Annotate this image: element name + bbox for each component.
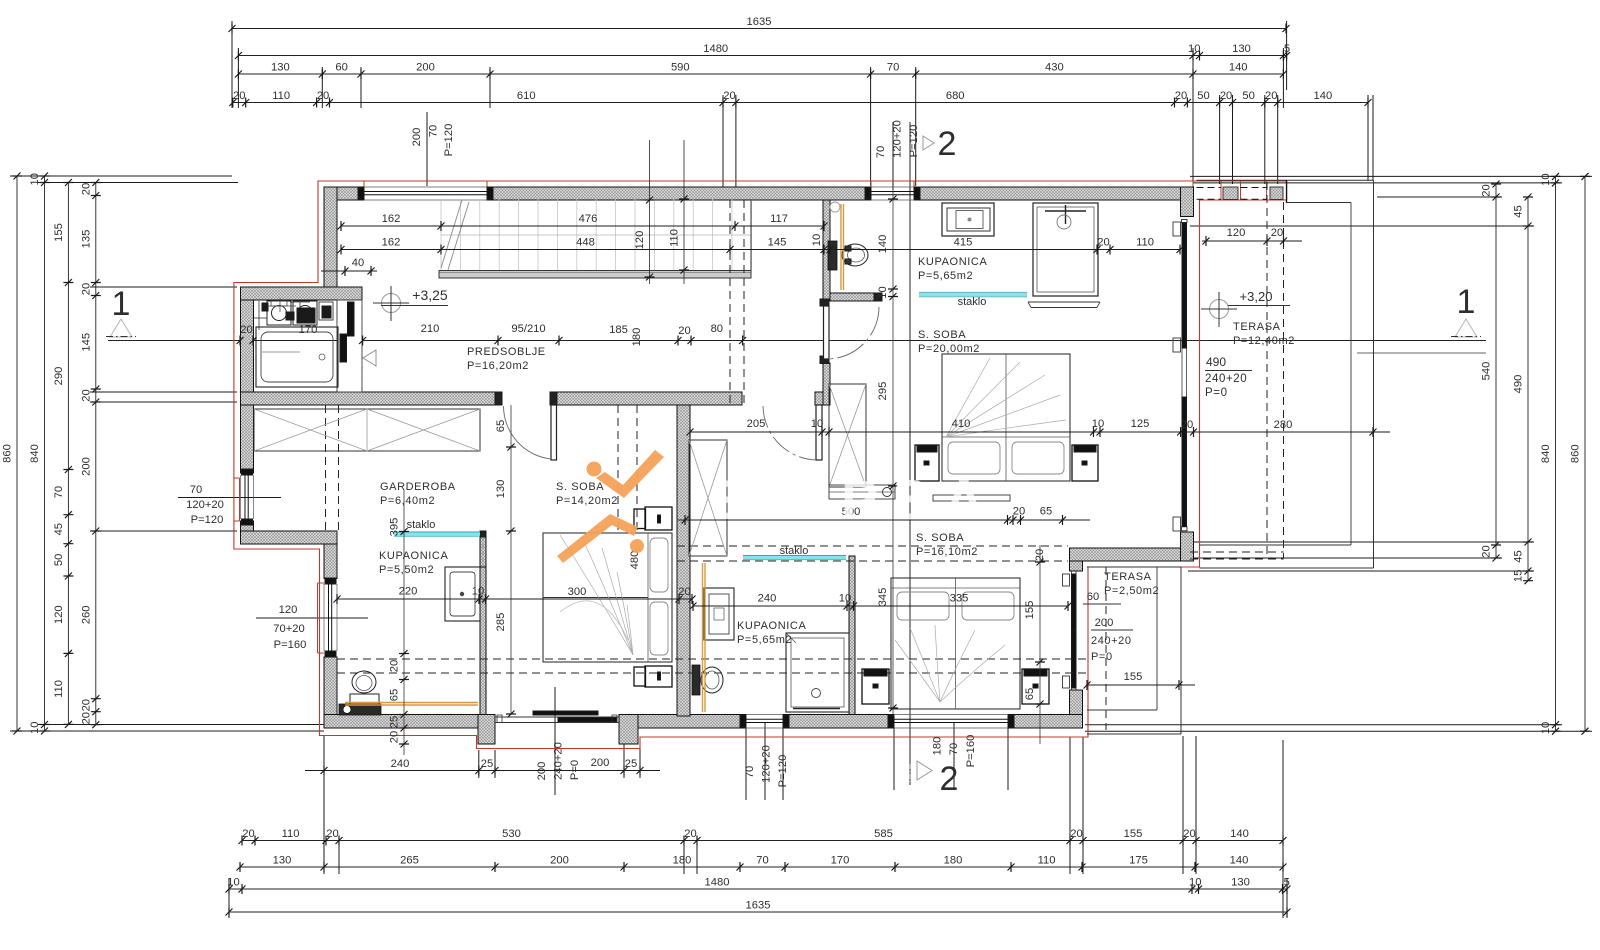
svg-text:KUPAONICA: KUPAONICA — [379, 550, 448, 562]
svg-text:200: 200 — [591, 757, 610, 769]
svg-text:448: 448 — [576, 237, 595, 249]
svg-text:P=5,50m2: P=5,50m2 — [379, 564, 434, 576]
dim row stairs 162/448/145/10/415/20/110 — [338, 234, 1184, 255]
vanity kupaonica 5,65 mid — [704, 588, 734, 640]
svg-text:65: 65 — [495, 420, 507, 432]
dim 10/20 labels near staklo S.SOBA16 — [1010, 515, 1017, 525]
dim row y599 220/10/300/20 — [334, 586, 696, 605]
svg-text:10: 10 — [472, 586, 484, 598]
nightstand S.SOBA14 bottom — [634, 666, 672, 687]
svg-text:P=120: P=120 — [191, 514, 224, 526]
shower kupaonica 5,65 mid — [786, 633, 849, 712]
wardrobe S.SOBA16 left — [689, 440, 727, 556]
svg-text:10: 10 — [29, 173, 41, 185]
svg-text:45: 45 — [53, 523, 65, 535]
svg-text:PREDSOBLJE: PREDSOBLJE — [467, 346, 546, 358]
svg-text:410: 410 — [952, 418, 971, 430]
svg-text:170: 170 — [831, 855, 850, 867]
svg-text:860: 860 — [1570, 444, 1582, 463]
svg-text:45: 45 — [1513, 550, 1525, 562]
svg-text:610: 610 — [517, 90, 536, 102]
terrace pillar 1 — [1223, 187, 1238, 200]
svg-text:20: 20 — [1220, 90, 1232, 102]
bed S.SOBA14 — [543, 533, 672, 662]
svg-text:585: 585 — [874, 828, 893, 840]
svg-text:285: 285 — [495, 613, 507, 632]
section line 1-1 — [108, 340, 1486, 342]
svg-text:20: 20 — [1175, 90, 1187, 102]
svg-text:50: 50 — [1242, 90, 1254, 102]
svg-text:120+20: 120+20 — [892, 120, 904, 158]
extension lines bottom — [229, 687, 1287, 918]
dashed projection pair vertical garderoba-west — [326, 405, 339, 531]
svg-text:140: 140 — [1314, 90, 1333, 102]
dim 40 laundry — [321, 257, 377, 276]
wall S.SOBA14 east — [677, 405, 690, 716]
terrace 12,40 border — [1197, 180, 1374, 568]
label TERASA 2,50 — [1104, 571, 1159, 597]
svg-text:20: 20 — [1013, 506, 1025, 518]
svg-text:65: 65 — [1040, 506, 1052, 518]
svg-text:125: 125 — [1131, 418, 1150, 430]
svg-text:ELIPSA: ELIPSA — [712, 468, 998, 531]
dim row y337 20/170/210/95-210/185/20/80 — [237, 323, 747, 346]
svg-text:P=2,50m2: P=2,50m2 — [1104, 585, 1159, 597]
extension lines top — [232, 21, 1373, 190]
svg-text:20: 20 — [723, 90, 735, 102]
section mark 2 top — [923, 125, 956, 163]
toilet WC — [828, 241, 868, 270]
shower kupaonica 5,50 — [445, 567, 480, 621]
svg-text:280: 280 — [1274, 419, 1293, 431]
label S.SOBA 16 — [916, 532, 978, 558]
svg-text:155: 155 — [1124, 671, 1143, 683]
svg-text:2: 2 — [940, 760, 959, 798]
dim row y432 205/10/410/10/125/20/280 — [687, 418, 1391, 437]
wall top (with window openings) — [324, 187, 1194, 200]
svg-text:GARDEROBA: GARDEROBA — [380, 481, 456, 493]
svg-text:1635: 1635 — [747, 16, 772, 28]
svg-text:10: 10 — [29, 722, 41, 734]
wall WC south — [830, 293, 877, 301]
watermark logo dot upper — [587, 462, 602, 477]
svg-text:1: 1 — [1457, 283, 1476, 321]
svg-text:415: 415 — [954, 237, 973, 249]
svg-text:50: 50 — [1197, 90, 1209, 102]
sliding terrace door right wall (490) — [1173, 219, 1187, 531]
label KUPAONICA 5,65 mid — [737, 620, 806, 646]
svg-text:20: 20 — [1271, 227, 1283, 239]
label S.SOBA 14 — [556, 481, 618, 507]
svg-text:20: 20 — [80, 712, 92, 724]
window bottom small (kupaonica 5,65) — [740, 715, 789, 729]
red parapet frames — [1193, 181, 1287, 200]
svg-text:430: 430 — [1045, 62, 1064, 74]
window W2 top (bathroom) — [865, 187, 920, 200]
extension lines right — [1085, 176, 1592, 731]
staklo glass kupaonica 5,65 mid — [743, 545, 846, 560]
svg-text:70: 70 — [53, 486, 65, 498]
svg-text:205: 205 — [747, 418, 766, 430]
svg-text:240+20: 240+20 — [1205, 373, 1247, 385]
svg-text:P=5,65m2: P=5,65m2 — [918, 270, 973, 282]
svg-text:staklo: staklo — [958, 296, 987, 308]
svg-text:P=6,40m2: P=6,40m2 — [380, 495, 435, 507]
svg-text:265: 265 — [400, 855, 419, 867]
svg-text:140: 140 — [1229, 62, 1248, 74]
dashed projection pair vertical predsoblje — [730, 200, 744, 405]
svg-text:1480: 1480 — [705, 877, 730, 889]
vertical dim line x893 140/10/295/345 — [877, 190, 898, 716]
dimension column right 10/840/10 — [1540, 173, 1561, 735]
svg-text:680: 680 — [946, 90, 965, 102]
svg-text:180: 180 — [631, 328, 643, 347]
svg-text:185: 185 — [609, 324, 628, 336]
dashed projection pair horizontal S.SOBA16 top — [677, 546, 1068, 561]
svg-text:P=0: P=0 — [1205, 387, 1228, 399]
svg-text:110: 110 — [272, 90, 290, 102]
svg-text:162: 162 — [382, 213, 401, 225]
svg-text:860: 860 — [2, 444, 14, 463]
svg-text:130: 130 — [1231, 877, 1250, 889]
entry pillar left — [478, 715, 495, 745]
svg-text:1: 1 — [112, 285, 131, 323]
svg-text:60: 60 — [1087, 591, 1099, 603]
stair width dim lines 120/110 — [634, 140, 689, 284]
svg-text:20: 20 — [1070, 828, 1082, 840]
svg-text:60: 60 — [335, 62, 347, 74]
window dim labels rotated top-mid (70/120+20/P=120) — [875, 120, 920, 190]
staircase landing edge — [439, 271, 751, 279]
dimension row top 20/110/20/610/20/680/20/50/20/50/20/140 — [229, 90, 1371, 108]
dashed line lower terrace — [1105, 567, 1107, 730]
window dim text left upper 70/120+20/P=120 — [178, 484, 281, 526]
svg-text:P=16,10m2: P=16,10m2 — [916, 546, 978, 558]
nightstand S.SOBA20 right — [1072, 445, 1098, 481]
window dim text left lower 120/70+20/P=160 — [256, 604, 368, 651]
svg-text:10: 10 — [1540, 173, 1552, 185]
window left lower wall — [324, 578, 337, 657]
dashed projection pair horizontal lower rooms — [337, 659, 1086, 673]
svg-text:20: 20 — [80, 283, 92, 295]
svg-text:117: 117 — [770, 213, 788, 225]
staircase right edge — [750, 199, 752, 278]
wall WC west — [823, 200, 830, 301]
svg-text:175: 175 — [1129, 855, 1148, 867]
svg-text:480: 480 — [629, 551, 641, 570]
heated pipe kupaonica 5,50 — [345, 703, 478, 706]
label S.SOBA 20 — [918, 329, 980, 355]
svg-text:20: 20 — [80, 699, 92, 711]
label KUPAONICA top — [918, 256, 987, 282]
svg-text:20: 20 — [389, 731, 401, 743]
dim 480 rotated S.SOBA14 — [629, 551, 641, 570]
svg-text:45: 45 — [1513, 205, 1525, 217]
svg-text:20: 20 — [389, 660, 401, 672]
svg-text:20: 20 — [684, 828, 696, 840]
window dim labels rotated top-left (200/70/P=120) — [411, 112, 455, 186]
dimension column right 20/540/20 — [1481, 181, 1502, 562]
nightstand S.SOBA16 right — [1022, 669, 1049, 704]
door predsoblje to S.SOBA14 — [495, 392, 557, 460]
svg-text:95/210: 95/210 — [511, 323, 545, 335]
svg-text:20: 20 — [1034, 549, 1046, 561]
svg-text:170: 170 — [299, 324, 318, 336]
svg-text:130: 130 — [273, 855, 292, 867]
svg-text:40: 40 — [352, 257, 364, 269]
svg-text:20: 20 — [80, 183, 92, 195]
dashed lines upper terrace — [1190, 182, 1284, 559]
svg-text:840: 840 — [29, 444, 41, 463]
label GARDEROBA — [380, 481, 456, 507]
wall step left — [241, 531, 338, 544]
level marker +3,25 — [373, 286, 448, 321]
svg-text:S. SOBA: S. SOBA — [916, 532, 964, 544]
svg-text:20: 20 — [1181, 419, 1193, 431]
svg-text:70: 70 — [875, 146, 887, 158]
svg-text:P=0: P=0 — [1091, 651, 1113, 663]
svg-text:130: 130 — [495, 480, 507, 499]
nightstand S.SOBA16 left — [862, 669, 889, 704]
svg-text:110: 110 — [53, 680, 65, 698]
svg-text:200: 200 — [416, 62, 435, 74]
svg-text:65: 65 — [389, 689, 401, 701]
vertical dim line x511 65/130/285 — [495, 405, 516, 718]
section mark 1 right — [1451, 283, 1481, 337]
lower terrace dims 60/200/240+20/P=0/155 — [1083, 591, 1195, 690]
svg-text:P=12,40m2: P=12,40m2 — [1233, 335, 1295, 347]
vertical dim line x1040 155/65 — [1024, 545, 1045, 744]
svg-text:+3,20: +3,20 — [1240, 289, 1273, 304]
svg-text:20: 20 — [1481, 184, 1493, 196]
bed S.SOBA16 blanket lines — [895, 625, 1005, 702]
shelf S.SOBA16 — [829, 485, 895, 499]
bed S.SOBA20 blanket lines — [946, 358, 1066, 437]
watermark logo dot lower — [630, 539, 644, 553]
svg-text:180: 180 — [932, 737, 944, 756]
svg-text:2: 2 — [938, 125, 957, 163]
svg-text:25: 25 — [625, 758, 637, 770]
watermark logo roof — [557, 514, 638, 563]
dimension row top 130/60/200/590/70/430/140 — [235, 62, 1287, 80]
svg-text:120+20: 120+20 — [186, 499, 224, 511]
svg-text:300: 300 — [568, 586, 587, 598]
wall right wing east (terrace 2,50 side) — [1070, 561, 1083, 715]
dashed projection pair vertical garderoba — [618, 405, 637, 531]
toilet kupaonica 5,50 — [350, 671, 379, 710]
svg-text:10: 10 — [811, 234, 823, 246]
wall bottom of S.SOBA 20 — [1070, 548, 1181, 561]
svg-text:290: 290 — [53, 367, 65, 386]
svg-text:240+20: 240+20 — [1091, 635, 1132, 647]
svg-text:10: 10 — [811, 418, 823, 430]
dimension row bottom 1635 — [226, 900, 1291, 918]
terrace 2,50 border — [1087, 567, 1181, 734]
wall left upper (with window opening) — [241, 300, 254, 531]
wall KUPAONICA 5,50 east — [480, 537, 486, 715]
svg-text:530: 530 — [502, 828, 521, 840]
svg-text:20: 20 — [240, 324, 252, 336]
svg-text:20: 20 — [678, 586, 690, 598]
svg-text:10: 10 — [839, 593, 851, 605]
svg-text:10: 10 — [1092, 418, 1104, 430]
svg-text:110: 110 — [282, 828, 300, 840]
red window sill jog lower-left — [318, 583, 325, 653]
wall left lower (with window opening) — [324, 544, 337, 715]
svg-text:25: 25 — [389, 716, 401, 728]
svg-text:540: 540 — [1481, 362, 1493, 381]
svg-text:110: 110 — [1038, 855, 1056, 867]
svg-text:490: 490 — [1206, 355, 1226, 369]
dimension row bottom entry 240/25/200/25 — [305, 742, 660, 780]
label TERASA 12,40 — [1233, 321, 1295, 347]
red jogs at top windows — [364, 181, 914, 187]
rotated window dims bottom-right 180/70/P=160 — [932, 722, 978, 788]
svg-text:P=0: P=0 — [569, 760, 581, 780]
svg-text:20: 20 — [678, 325, 690, 337]
svg-text:240+20: 240+20 — [553, 742, 565, 780]
svg-text:80: 80 — [711, 323, 723, 335]
heated pipe WC — [841, 204, 844, 290]
svg-text:120+20: 120+20 — [761, 745, 773, 783]
svg-text:70: 70 — [756, 855, 768, 867]
svg-text:20: 20 — [1097, 237, 1109, 249]
staklo glass kupaonica top — [919, 292, 1027, 308]
door garderoba to kupaonica 5,50 — [480, 531, 486, 567]
wall laundry top — [241, 287, 363, 300]
washing machine 2 / dryer — [293, 301, 333, 325]
svg-text:P=20,00m2: P=20,00m2 — [918, 343, 980, 355]
svg-text:50: 50 — [53, 554, 65, 566]
laundry piping — [254, 298, 331, 330]
garderoba wardrobe — [254, 409, 480, 451]
svg-text:20: 20 — [1183, 828, 1195, 840]
dim 20 rotated wall right — [1034, 549, 1046, 561]
wall right (with terrace door opening) — [1181, 187, 1194, 561]
vertical dim line x404 395/20/65/25/20 — [389, 490, 410, 755]
terrace pillar 2 — [1270, 187, 1283, 200]
svg-text:335: 335 — [950, 593, 969, 605]
section mark 1 left — [106, 285, 136, 337]
svg-text:P=16,20m2: P=16,20m2 — [467, 360, 529, 372]
sliding terrace door right wing (S.SOBA16) — [1063, 571, 1077, 690]
svg-text:145: 145 — [768, 237, 787, 249]
dim row y520 500/20/65 — [678, 506, 1090, 526]
bed S.SOBA16 — [891, 578, 1020, 709]
washbasin kupaonica 5,50 — [339, 704, 381, 715]
svg-text:260: 260 — [80, 606, 92, 625]
svg-text:20: 20 — [326, 828, 338, 840]
shower mat kupaonica top — [1028, 302, 1100, 308]
laundry pocket door — [337, 300, 376, 392]
window left upper wall — [241, 469, 254, 525]
svg-text:135: 135 — [80, 230, 92, 249]
svg-text:70: 70 — [428, 125, 440, 137]
svg-text:70: 70 — [190, 484, 202, 496]
svg-text:KUPAONICA: KUPAONICA — [918, 256, 987, 268]
svg-text:S. SOBA: S. SOBA — [918, 329, 966, 341]
nightstand S.SOBA14 top — [634, 507, 672, 530]
wardrobe S.SOBA16 top — [829, 384, 866, 487]
entry sliding door — [495, 711, 619, 723]
svg-text:476: 476 — [579, 213, 598, 225]
svg-text:210: 210 — [421, 323, 440, 335]
section line 2-2 — [909, 122, 911, 785]
svg-text:180: 180 — [673, 855, 692, 867]
rotated window dims bottom-left 70/120+20/P=120 — [744, 722, 789, 800]
terrace door dims 490/240+20/P=0 — [1205, 353, 1486, 399]
staircase treads — [441, 199, 751, 270]
nightstand S.SOBA20 left — [915, 445, 939, 481]
dimension column left 10/840/10 — [29, 173, 50, 735]
washing machine 1 — [267, 301, 291, 325]
svg-text:25: 25 — [481, 758, 493, 770]
svg-text:10: 10 — [1540, 722, 1552, 734]
dim row stairs 162/476/117 — [338, 213, 828, 231]
bed S.SOBA20 — [942, 354, 1070, 481]
svg-text:+3,25: +3,25 — [412, 287, 448, 303]
svg-text:staklo: staklo — [780, 545, 809, 557]
svg-text:P=120: P=120 — [443, 124, 455, 157]
svg-text:120: 120 — [634, 231, 646, 250]
svg-text:20: 20 — [233, 90, 245, 102]
red window sill jog upper-left — [234, 478, 240, 521]
svg-text:20: 20 — [242, 828, 254, 840]
svg-text:20: 20 — [317, 90, 329, 102]
svg-text:10: 10 — [877, 286, 889, 298]
dimension row bottom 130/265/200/180/70/170/180/110/175/140 — [237, 855, 1287, 873]
vanity 415 kupaonica top — [942, 203, 994, 236]
svg-text:180: 180 — [944, 855, 963, 867]
svg-text:1480: 1480 — [703, 43, 728, 55]
dimension column left 155/290/70/45/50/120/110 — [53, 179, 74, 728]
svg-text:200: 200 — [550, 855, 569, 867]
shower kupaonica top — [1033, 203, 1098, 296]
svg-text:70+20: 70+20 — [273, 623, 304, 635]
svg-text:155: 155 — [53, 223, 65, 242]
svg-text:120: 120 — [53, 605, 65, 624]
svg-text:200: 200 — [411, 128, 423, 147]
svg-text:140: 140 — [1230, 855, 1249, 867]
svg-text:65: 65 — [1024, 688, 1036, 700]
svg-text:staklo: staklo — [407, 519, 436, 531]
svg-text:120: 120 — [1227, 227, 1246, 239]
svg-text:200: 200 — [536, 762, 548, 781]
svg-text:20: 20 — [1481, 545, 1493, 557]
svg-text:200: 200 — [80, 457, 92, 476]
svg-text:P=160: P=160 — [274, 639, 307, 651]
dimension column right 45/490/45/15 — [1513, 194, 1534, 585]
svg-text:10: 10 — [1189, 877, 1201, 889]
dim row terrace 120/20 — [1202, 227, 1302, 246]
svg-text:145: 145 — [80, 333, 92, 352]
window W1 top (above stairs) — [358, 187, 493, 200]
svg-text:130: 130 — [271, 62, 290, 74]
svg-text:P=14,20m2: P=14,20m2 — [556, 495, 618, 507]
door predsoblje to S.SOBA16 — [763, 405, 822, 460]
svg-text:KUPAONICA: KUPAONICA — [737, 620, 806, 632]
svg-text:240: 240 — [391, 758, 410, 770]
bathtub laundry — [256, 327, 338, 387]
svg-text:1635: 1635 — [746, 900, 771, 912]
svg-text:590: 590 — [671, 62, 690, 74]
dimension row top 1635 — [229, 16, 1290, 34]
dimension row bottom 20/110/20/530/20/585/20/155/20/140 — [239, 828, 1287, 846]
svg-text:155: 155 — [1024, 601, 1036, 620]
floor drain WC — [830, 202, 840, 212]
svg-text:70: 70 — [948, 743, 960, 755]
heated pipe kupaonica 5,65 mid — [703, 563, 706, 712]
